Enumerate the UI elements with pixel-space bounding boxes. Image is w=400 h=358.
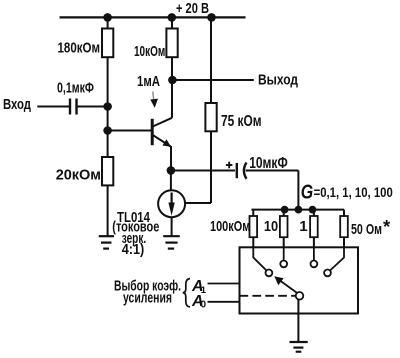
svg-text:усиления: усиления bbox=[123, 290, 172, 307]
svg-text:0: 0 bbox=[201, 300, 207, 311]
svg-text:Выход: Выход bbox=[258, 72, 298, 89]
svg-text:10: 10 bbox=[264, 218, 278, 235]
svg-text:Вход: Вход bbox=[3, 96, 31, 113]
svg-text:G: G bbox=[301, 181, 313, 203]
svg-text:100кОм: 100кОм bbox=[210, 218, 250, 235]
svg-text:20кОм: 20кОм bbox=[56, 167, 101, 184]
svg-text:10кОм: 10кОм bbox=[134, 43, 165, 60]
svg-text:4:1): 4:1) bbox=[122, 242, 145, 258]
svg-text:1: 1 bbox=[299, 218, 307, 235]
svg-text:=0,1, 1, 10, 100: =0,1, 1, 10, 100 bbox=[314, 184, 393, 200]
svg-text:180кОм: 180кОм bbox=[58, 39, 101, 56]
svg-text:50 Ом: 50 Ом bbox=[351, 221, 382, 238]
svg-text:1мА: 1мА bbox=[137, 73, 160, 90]
svg-text:*: * bbox=[383, 216, 391, 237]
svg-text:10мкФ: 10мкФ bbox=[249, 155, 288, 172]
svg-text:0,1мкФ: 0,1мкФ bbox=[57, 80, 94, 97]
svg-text:+ 20 В: + 20 В bbox=[176, 0, 209, 17]
svg-text:75 кОм: 75 кОм bbox=[221, 113, 262, 130]
